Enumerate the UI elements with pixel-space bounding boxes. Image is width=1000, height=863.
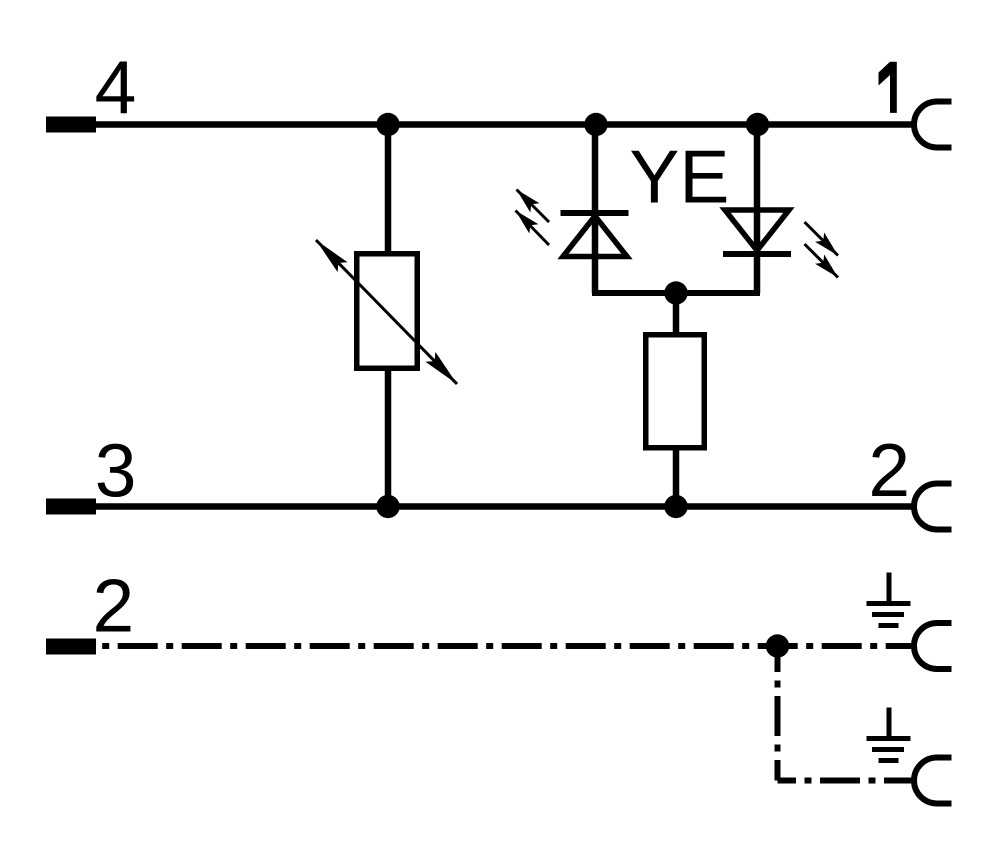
resistor body [646,335,705,448]
LED D2 light arrow 1 shaft [805,222,839,256]
wire: resistor bottom lead [673,447,680,507]
node: top rail / varistor junction [376,113,399,136]
varistor arrowhead upper-left [316,240,348,272]
varistor arrow shaft [316,240,457,384]
LED D1 light arrow 1 head [517,190,540,213]
earth symbol 2 bar 1 [867,736,911,741]
node: screen branch junction [766,634,789,657]
svg-text:YE: YE [629,135,729,219]
earth symbol 1 bar 3 [879,623,899,628]
wire: top rail from pin 4 to contact 1 [96,121,914,127]
node: middle rail / resistor junction [664,495,687,518]
earth symbol 1 bar 1 [867,601,911,606]
earth symbol 1 stem [887,573,892,604]
contact 1 socket arc [914,102,951,148]
wire: LED D1 lead [592,125,599,294]
earth contact 1 socket arc [914,623,952,669]
wire: middle rail from pin 3 to contact 2 [96,503,914,509]
svg-text:2: 2 [868,428,910,512]
terminal bar pin 3 [46,499,96,515]
node: LED link / resistor junction [664,281,687,304]
svg-text:2: 2 [93,563,135,647]
wire: screen dash-dot branch horizontal [778,778,915,784]
earth symbol 2 bar 3 [879,758,899,763]
wire: varistor bottom lead [385,368,392,507]
LED D1 triangle [563,216,627,257]
varistor body [357,254,418,369]
LED D1 light arrow 2 shaft [516,211,550,246]
wire: LED pair bottom link [595,290,757,293]
earth symbol 2 bar 2 [872,747,904,752]
contact 2 socket arc [914,484,951,530]
wire: screen dash-dot branch vertical [775,646,781,781]
node: top rail / LED D2 junction [746,113,769,136]
node: top rail / LED D1 junction [584,113,607,136]
wire: LED D2 lead [754,125,761,294]
wire: varistor top lead [385,125,392,254]
LED D2 light arrow 1 head [815,233,838,256]
LED D2 cathode bar [723,251,791,257]
earth symbol 2 stem [887,708,892,739]
node: middle rail / varistor junction [376,495,399,518]
earth contact 2 socket arc [914,758,951,804]
LED D1 light arrow 1 shaft [517,190,550,223]
LED D1 cathode bar [561,210,629,216]
label 1 (drawn glyph) [879,62,897,113]
wire: resistor top lead [673,293,680,334]
LED D2 light arrow 2 head [815,255,838,278]
terminal bar pin 2 [46,639,96,655]
svg-text:4: 4 [95,45,137,129]
svg-text:3: 3 [95,429,137,513]
LED D1 light arrow 2 head [516,211,539,234]
LED D2 light arrow 2 shaft [805,244,839,278]
varistor arrowhead lower-right [425,352,457,384]
earth symbol 1 bar 2 [872,612,904,617]
terminal bar pin 4 [46,117,96,133]
wire: screen dash-dot line to earth contact [96,643,914,649]
LED D2 triangle [725,210,789,251]
